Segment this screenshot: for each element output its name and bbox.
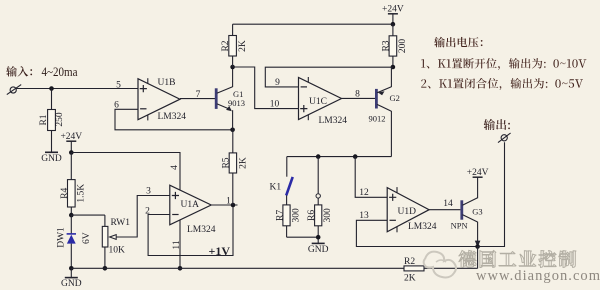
svg-text:300: 300 — [323, 208, 333, 223]
svg-text:LM324: LM324 — [408, 222, 437, 232]
node pin 11 on rail — [178, 266, 183, 271]
svg-text:R6: R6 — [307, 210, 317, 221]
transistor G1 9013 NPN — [216, 87, 245, 111]
resistor R2 2K (bottom horizontal) — [404, 257, 424, 284]
svg-text:13: 13 — [359, 211, 369, 221]
wire G3 emitter down with arrow — [475, 222, 481, 247]
resistor R4 1.5K — [60, 153, 87, 216]
resistor R1 250 — [39, 89, 65, 153]
wire R7 bottom to R6 bottom — [287, 236, 319, 238]
wire pin 9 to R3 node — [265, 67, 393, 87]
wire RW1 wiper to pin 3 — [116, 196, 170, 238]
input terminal J1 (输入 4~20ma) — [6, 65, 78, 94]
svg-text:R2: R2 — [221, 40, 231, 51]
wire G2 emitter up — [390, 67, 392, 87]
power +24V top terminal — [382, 5, 404, 25]
wire G1 collector up — [232, 67, 234, 87]
svg-text:NPN: NPN — [451, 221, 468, 231]
svg-text:10: 10 — [270, 99, 280, 109]
potentiometer RW1 10K — [71, 215, 130, 268]
svg-text:LM324: LM324 — [187, 225, 216, 235]
wire pin 2 feedback loop from pin 1 — [148, 205, 233, 256]
wire output node to output terminal — [478, 142, 505, 246]
wire G1 emitter down — [232, 110, 234, 130]
power +24V at G3 collector — [467, 168, 489, 198]
wire +24V top rail — [233, 23, 393, 25]
wire pin 1 output — [211, 204, 237, 206]
node R6 top — [316, 154, 321, 159]
wire R2 node to pin 10 — [233, 67, 299, 109]
svg-text:K1: K1 — [270, 182, 282, 192]
wire node line to pin 12 — [355, 157, 387, 198]
watermark 德国工业控制 — [459, 250, 576, 267]
transistor G3 NPN — [451, 198, 483, 231]
svg-text:6V: 6V — [82, 232, 92, 244]
wire output node line K1/R6/pin12 — [287, 156, 392, 158]
resistor R3 200 — [381, 24, 408, 67]
node pin 12 riser — [353, 154, 358, 159]
node +24V/R4/pin4 — [69, 150, 74, 155]
node pin1/R5/feedback — [231, 203, 236, 208]
zener diode DW1 6V — [57, 215, 92, 268]
note line 1 — [421, 58, 586, 70]
ground bottom left — [61, 268, 82, 289]
svg-text:5: 5 — [116, 80, 121, 90]
wire +24V rail to pin 4 — [71, 153, 180, 191]
svg-text:300: 300 — [292, 208, 302, 223]
switch K1 — [270, 157, 293, 196]
svg-text:G2: G2 — [390, 93, 400, 103]
svg-text:2K: 2K — [238, 157, 248, 169]
svg-text:LM324: LM324 — [319, 116, 348, 126]
transistor G2 9012 PNP — [369, 87, 400, 124]
node R3 bottom / G2 emitter / pin 9 net — [391, 65, 396, 70]
op-amp U1B LM324 — [114, 78, 201, 122]
resistor R6 300 — [307, 157, 333, 244]
svg-text:RW1: RW1 — [111, 218, 131, 228]
svg-text:2K: 2K — [238, 40, 248, 52]
wire pin 13 feedback to G3 emitter — [356, 220, 477, 246]
wire input node to pin 5 — [16, 88, 138, 90]
svg-text:4~20ma: 4~20ma — [42, 65, 78, 79]
wire pin 7 to Q G1 base — [180, 98, 215, 100]
wire pin 6 feedback net — [115, 109, 233, 130]
node G3 emitter / output / R2 — [475, 244, 480, 249]
svg-text:4: 4 — [170, 165, 180, 170]
wire bottom GND/feedback rail — [71, 267, 404, 269]
svg-text:2K: 2K — [404, 274, 416, 284]
node rail / R3 — [391, 22, 396, 27]
node R6/R7 bottom — [316, 235, 321, 240]
svg-text:R7: R7 — [275, 210, 285, 221]
svg-text:R2: R2 — [404, 257, 415, 267]
wire G2 collector down — [390, 111, 392, 157]
op-amp U1C LM324 — [299, 77, 361, 126]
svg-text:U1A: U1A — [181, 200, 200, 210]
svg-text:14: 14 — [443, 199, 453, 209]
svg-text:GND: GND — [41, 154, 62, 164]
svg-text:U1B: U1B — [158, 78, 176, 88]
svg-text:10K: 10K — [109, 246, 126, 256]
svg-text:LM324: LM324 — [158, 112, 187, 122]
svg-text:3: 3 — [146, 186, 151, 196]
svg-text:250: 250 — [55, 112, 65, 127]
svg-text:R4: R4 — [60, 188, 70, 199]
power +24V left terminal — [60, 132, 82, 153]
node DW1 bottom / GND rail — [69, 266, 74, 271]
svg-text:12: 12 — [359, 188, 369, 198]
ground under R1 — [41, 152, 62, 164]
svg-text:U1D: U1D — [398, 207, 417, 217]
svg-text:200: 200 — [398, 39, 408, 54]
node R2 bottom / G1 collector — [230, 65, 235, 70]
node input/R1 junction — [49, 86, 54, 91]
note line 2 — [421, 78, 583, 90]
svg-text:U1C: U1C — [309, 97, 327, 107]
watermark logo — [424, 252, 456, 278]
svg-text:R3: R3 — [381, 40, 391, 51]
svg-text:11: 11 — [172, 240, 182, 249]
wire pin 8 to G2 base — [342, 97, 376, 99]
wire pin 14 to G3 base — [429, 209, 460, 211]
op-amp U1A LM324 — [145, 185, 231, 235]
svg-text:R1: R1 — [39, 114, 49, 125]
node RW1 bottom on rail — [103, 266, 108, 271]
svg-text:G3: G3 — [472, 206, 482, 216]
wire emitter node down to bottom rail — [477, 247, 479, 269]
svg-text:9012: 9012 — [369, 114, 386, 124]
pin 11 wire to rail — [179, 220, 181, 268]
svg-text:9013: 9013 — [228, 98, 245, 108]
node R4/DW1/RW1 — [69, 213, 74, 218]
svg-text:www.diangon.com: www.diangon.com — [476, 268, 600, 284]
op-amp U1D LM324 — [359, 187, 453, 232]
svg-text:+1V: +1V — [209, 244, 231, 258]
note 输出电压 heading — [434, 37, 482, 48]
ground under R6 — [308, 243, 329, 255]
svg-text:9: 9 — [275, 78, 280, 88]
svg-text:R5: R5 — [222, 157, 232, 168]
resistor R7 300 — [275, 195, 301, 237]
resistor R2 2K (top) — [221, 24, 248, 67]
svg-text:GND: GND — [308, 245, 329, 255]
svg-text:DW1: DW1 — [57, 227, 67, 248]
svg-text:GND: GND — [61, 279, 82, 289]
node G1 emitter / feedback / R5 junction — [230, 128, 235, 133]
svg-text:1.5K: 1.5K — [77, 184, 87, 203]
resistor R5 2K — [222, 130, 249, 205]
output terminal (输出) — [484, 119, 511, 143]
wire rail right of R2 — [424, 267, 478, 269]
